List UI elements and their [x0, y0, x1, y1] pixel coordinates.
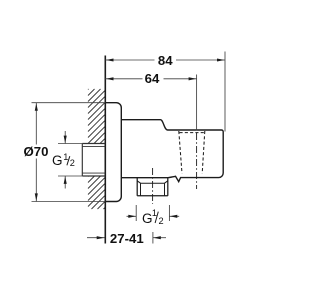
label G1/2 supply	[52, 152, 75, 168]
wall front surface line	[104, 56, 106, 244]
wall flange escutcheon	[105, 103, 121, 202]
arrowheads	[35, 58, 225, 239]
shower holder body outline	[121, 120, 223, 182]
outlet nipple G1/2	[137, 178, 168, 196]
wall section hatching lower	[88, 176, 105, 209]
svg-text:1: 1	[152, 208, 157, 218]
svg-text:27-41: 27-41	[110, 231, 144, 246]
hidden holder cone (dashed)	[179, 131, 205, 174]
wall section hatching upper	[88, 89, 105, 144]
svg-text:2: 2	[70, 158, 75, 168]
svg-text:1: 1	[63, 152, 68, 162]
dimension 27-41 lines	[87, 232, 166, 244]
dimension 84 lines	[105, 52, 225, 132]
label G1/2 outlet	[142, 208, 164, 226]
dimension 64 lines	[105, 75, 196, 131]
dimension G1/2 supply lines	[58, 131, 82, 189]
dimension G1/2 outlet lines	[127, 205, 180, 221]
svg-text:84: 84	[158, 53, 173, 68]
concealed supply pipe stub G1/2	[82, 144, 105, 177]
svg-text:2: 2	[159, 216, 164, 226]
svg-text:64: 64	[145, 71, 160, 86]
svg-text:Ø70: Ø70	[24, 144, 49, 159]
cone centre line (dash-dot)	[196, 133, 198, 189]
svg-text:G: G	[52, 153, 63, 168]
dimension dia70 lines	[32, 103, 106, 202]
nipple centre line (dash-dot)	[152, 168, 154, 204]
